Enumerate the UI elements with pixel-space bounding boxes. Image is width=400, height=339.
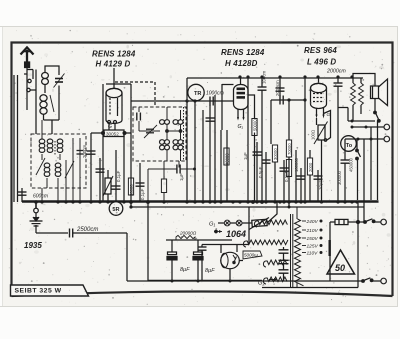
svg-text:210V: 210V	[306, 228, 319, 234]
svg-text:H 4129 D: H 4129 D	[96, 60, 131, 69]
svg-text:0,1µF: 0,1µF	[140, 188, 145, 200]
svg-text:G₁: G₁	[209, 222, 216, 228]
svg-text:8µF: 8µF	[180, 267, 190, 273]
svg-text:600cm: 600cm	[33, 194, 48, 200]
svg-text:40000: 40000	[225, 153, 230, 165]
svg-text:G: G	[108, 124, 112, 130]
svg-text:RENS 1284: RENS 1284	[92, 50, 136, 59]
svg-text:2000: 2000	[308, 162, 313, 172]
svg-text:G: G	[327, 112, 331, 118]
svg-text:240V: 240V	[306, 219, 319, 225]
svg-text:0,5µF: 0,5µF	[258, 166, 263, 178]
svg-text:8µF: 8µF	[205, 268, 215, 274]
svg-text:2000cm: 2000cm	[326, 69, 346, 75]
svg-text:1000cm: 1000cm	[206, 91, 224, 97]
svg-text:20000Ω: 20000Ω	[179, 231, 197, 236]
svg-text:50: 50	[335, 263, 345, 273]
svg-text:1µF: 1µF	[243, 152, 248, 160]
svg-text:RES 964: RES 964	[304, 46, 337, 55]
svg-text:100Ω: 100Ω	[311, 130, 316, 140]
svg-text:2500cm: 2500cm	[76, 227, 98, 233]
svg-text:70000: 70000	[287, 143, 292, 155]
svg-text:200cm: 200cm	[82, 144, 87, 158]
svg-text:30000: 30000	[273, 148, 278, 160]
svg-text:110V: 110V	[307, 251, 319, 257]
svg-text:2000cm: 2000cm	[275, 80, 280, 96]
svg-text:30052: 30052	[106, 132, 119, 137]
svg-text:300000: 300000	[337, 170, 342, 185]
svg-text:H 4128D: H 4128D	[225, 59, 258, 68]
svg-text:0,1µF: 0,1µF	[284, 170, 289, 182]
svg-text:To: To	[346, 143, 353, 149]
svg-text:1µF: 1µF	[179, 173, 184, 181]
svg-text:RENS 1284: RENS 1284	[221, 48, 265, 57]
svg-text:5000ω: 5000ω	[244, 253, 258, 258]
svg-text:0,1µF: 0,1µF	[116, 170, 121, 182]
svg-text:50000: 50000	[129, 184, 134, 196]
svg-text:100000: 100000	[294, 157, 299, 172]
svg-text:10µF: 10µF	[318, 180, 323, 190]
svg-text:1935: 1935	[24, 241, 42, 250]
svg-text:TR: TR	[194, 91, 201, 97]
svg-text:SEIBT 325 W: SEIBT 325 W	[15, 287, 62, 294]
svg-text:150V: 150V	[307, 236, 319, 242]
svg-text:125V: 125V	[307, 244, 319, 250]
svg-text:1064: 1064	[226, 229, 246, 239]
svg-text:L 496 D: L 496 D	[307, 58, 336, 67]
svg-text:450000: 450000	[349, 157, 354, 172]
svg-text:50000: 50000	[253, 119, 258, 131]
